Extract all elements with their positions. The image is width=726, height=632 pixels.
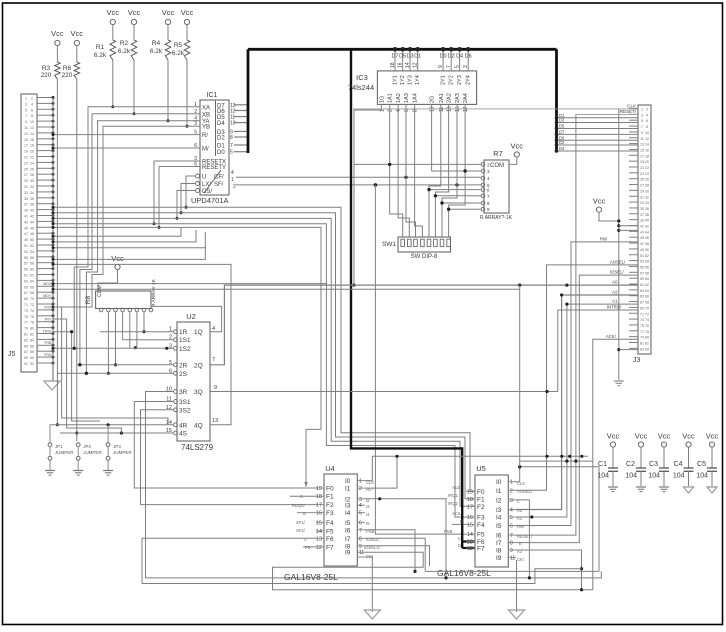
svg-text:82: 82 <box>645 342 649 346</box>
svg-text:11: 11 <box>640 137 644 141</box>
op-amp U1 IC1 body <box>191 92 236 205</box>
svg-text:28: 28 <box>645 184 649 188</box>
svg-text:4: 4 <box>510 508 513 514</box>
PLD U5 GAL16V8-25L <box>437 464 516 578</box>
wire J3 row 264 AOSEL <box>516 260 638 491</box>
svg-text:80: 80 <box>645 336 649 340</box>
svg-text:29: 29 <box>24 179 28 183</box>
svg-text:15: 15 <box>316 520 322 526</box>
svg-text:R5: R5 <box>174 42 183 49</box>
svg-text:90: 90 <box>30 356 34 360</box>
wire U4 I6 <box>365 530 417 573</box>
svg-text:RESET/: RESET/ <box>620 109 637 114</box>
svg-text:Vcc: Vcc <box>635 432 648 441</box>
svg-text:104: 104 <box>696 473 708 480</box>
svg-text:22: 22 <box>30 156 34 160</box>
svg-text:GAL16V8-25L: GAL16V8-25L <box>284 572 338 582</box>
svg-text:81: 81 <box>640 342 644 346</box>
svg-text:JUMPER: JUMPER <box>55 450 74 455</box>
svg-text:39: 39 <box>24 209 28 213</box>
svg-text:86: 86 <box>30 344 34 348</box>
svg-text:16: 16 <box>645 148 649 152</box>
wire J3 row 304 A1 <box>516 299 638 519</box>
svg-text:XB: XB <box>202 112 210 118</box>
capacitor C5 104 <box>696 432 718 494</box>
wire R7 rowE <box>427 188 481 191</box>
resistor R1 6.2k <box>94 40 116 60</box>
svg-text:34: 34 <box>30 191 34 195</box>
svg-text:42: 42 <box>645 225 649 229</box>
svg-text:44: 44 <box>30 220 34 224</box>
wire R8 pin6 <box>136 312 138 348</box>
svg-text:R ARRAY 1K: R ARRAY 1K <box>151 278 157 307</box>
svg-text:15: 15 <box>24 138 28 142</box>
wire bottom B1 <box>425 570 599 572</box>
svg-text:Vcc: Vcc <box>593 197 606 206</box>
svg-text:14: 14 <box>467 532 473 538</box>
svg-text:4: 4 <box>212 326 215 332</box>
svg-text:1: 1 <box>510 480 513 486</box>
wire U5 I8 <box>516 550 583 591</box>
svg-text:1: 1 <box>641 108 643 112</box>
svg-text:D1: D1 <box>217 144 225 150</box>
svg-text:84: 84 <box>30 338 34 342</box>
wire R8 pin4 <box>122 312 124 340</box>
svg-text:TRX: TRX <box>44 306 52 310</box>
svg-text:GAL16V8-25L: GAL16V8-25L <box>437 568 491 578</box>
wire 3R row <box>146 392 602 578</box>
wire collector Hb <box>520 460 593 463</box>
capacitor C3 104 <box>648 432 670 492</box>
svg-text:4Q: 4Q <box>194 422 203 429</box>
wire row 248 <box>52 232 206 249</box>
resistor R5 6.2k <box>172 40 190 60</box>
bus thick left drop <box>247 49 250 153</box>
svg-text:R2: R2 <box>120 40 129 47</box>
resistor R2 6.2k <box>118 40 137 60</box>
resistor R3 220 <box>41 62 61 79</box>
svg-text:73: 73 <box>24 309 28 313</box>
svg-text:18: 18 <box>30 144 34 148</box>
svg-text:6.2k: 6.2k <box>172 50 185 57</box>
svg-text:I6: I6 <box>496 533 502 540</box>
wire 1S1 row <box>123 339 174 341</box>
svg-text:SW1: SW1 <box>382 241 396 248</box>
svg-text:Vcc: Vcc <box>607 432 620 441</box>
svg-text:TRA: TRA <box>44 353 52 357</box>
svg-text:19: 19 <box>24 150 28 154</box>
svg-text:1: 1 <box>25 97 27 101</box>
wire U4 I2 long <box>365 497 448 579</box>
svg-text:41: 41 <box>24 215 28 219</box>
svg-text:7: 7 <box>510 533 513 539</box>
svg-text:JP3: JP3 <box>113 444 121 449</box>
svg-text:6: 6 <box>510 524 513 530</box>
svg-text:12: 12 <box>645 137 649 141</box>
svg-text:IRQ2: IRQ2 <box>448 501 458 506</box>
wire row 283 <box>52 282 327 285</box>
Vcc R2 <box>128 8 141 40</box>
svg-text:8: 8 <box>413 109 419 112</box>
svg-text:69: 69 <box>24 297 28 301</box>
wire bus row1 <box>52 206 476 492</box>
svg-text:3: 3 <box>510 498 513 504</box>
wire RESETY tap <box>158 167 161 229</box>
svg-text:SW DIP-8: SW DIP-8 <box>411 254 438 260</box>
svg-text:17: 17 <box>316 503 322 509</box>
svg-text:1A3: 1A3 <box>404 93 410 103</box>
svg-text:6.2k: 6.2k <box>94 52 107 59</box>
Vcc R4 <box>162 8 175 40</box>
svg-text:D4: D4 <box>456 54 463 60</box>
svg-text:16: 16 <box>467 515 473 521</box>
svg-text:YB: YB <box>202 125 210 131</box>
bus thick mid drop <box>351 49 462 548</box>
svg-text:13: 13 <box>212 418 218 424</box>
ground J3 vcc line <box>614 381 624 386</box>
svg-text:I5: I5 <box>345 520 351 527</box>
wire IC1 LX pin <box>180 184 196 215</box>
wire XB net <box>80 114 192 365</box>
svg-text:30: 30 <box>30 179 34 183</box>
svg-text:51: 51 <box>24 244 28 248</box>
svg-text:66: 66 <box>645 295 649 299</box>
svg-text:A1: A1 <box>517 516 523 521</box>
resistor R4 6.2k <box>150 40 171 60</box>
svg-text:1Y4: 1Y4 <box>415 75 421 85</box>
svg-text:E: E <box>519 541 522 546</box>
svg-text:1: 1 <box>231 177 234 183</box>
svg-text:COM: COM <box>490 163 504 169</box>
wire J3 row 349 <box>619 349 638 351</box>
resistor array R7 <box>480 149 513 221</box>
svg-text:6.2k: 6.2k <box>150 48 163 55</box>
svg-text:29: 29 <box>640 189 644 193</box>
svg-text:68: 68 <box>645 301 649 305</box>
wire row 259 <box>52 248 206 261</box>
svg-text:47: 47 <box>24 232 28 236</box>
svg-text:2Q: 2Q <box>194 362 203 369</box>
svg-text:F1: F1 <box>326 494 334 501</box>
svg-text:6: 6 <box>31 108 33 112</box>
wire row 236 <box>52 228 182 238</box>
capacitor C1 104 <box>597 432 619 492</box>
svg-text:TRB: TRB <box>44 341 52 345</box>
svg-text:1S1: 1S1 <box>179 337 191 344</box>
svg-text:32: 32 <box>645 195 649 199</box>
svg-text:2R: 2R <box>179 362 188 369</box>
svg-text:36: 36 <box>645 207 649 211</box>
svg-text:62: 62 <box>30 274 34 278</box>
svg-text:75: 75 <box>640 324 644 328</box>
svg-text:3R: 3R <box>179 389 188 396</box>
svg-text:I7: I7 <box>345 536 351 543</box>
wire IC1 CS pin <box>176 191 196 220</box>
svg-text:13: 13 <box>24 132 28 136</box>
svg-text:2A1: 2A1 <box>439 93 445 103</box>
svg-text:R6: R6 <box>63 65 72 72</box>
wire R8 pin7 <box>142 312 145 334</box>
svg-text:2Y3: 2Y3 <box>457 75 463 85</box>
svg-text:25: 25 <box>24 167 28 171</box>
svg-text:28: 28 <box>30 173 34 177</box>
svg-text:83: 83 <box>24 338 28 342</box>
svg-text:36: 36 <box>30 197 34 201</box>
svg-text:AOSEL/: AOSEL/ <box>517 489 533 494</box>
wire R7 rowB <box>432 169 481 172</box>
svg-text:70: 70 <box>30 297 34 301</box>
wire 4S row <box>60 431 174 434</box>
svg-text:6: 6 <box>646 119 648 123</box>
svg-text:4S: 4S <box>179 431 188 438</box>
wire IC3 2G <box>431 104 433 171</box>
wire U5 F4 stub <box>452 523 466 525</box>
svg-text:14: 14 <box>316 529 322 535</box>
svg-text:43: 43 <box>24 220 28 224</box>
svg-text:39: 39 <box>640 219 644 223</box>
svg-text:65: 65 <box>24 285 28 289</box>
svg-text:3: 3 <box>641 113 643 117</box>
wire FNB vertical <box>375 185 466 534</box>
svg-text:RESETY: RESETY <box>202 165 226 171</box>
svg-text:35: 35 <box>24 197 28 201</box>
svg-text:57: 57 <box>24 262 28 266</box>
wire bus row5 <box>52 226 322 484</box>
svg-text:M/: M/ <box>202 147 209 153</box>
svg-text:74ls244: 74ls244 <box>348 83 374 92</box>
svg-text:17: 17 <box>24 144 28 148</box>
svg-text:F2: F2 <box>477 504 485 511</box>
wire CF/ to R7 <box>236 176 481 179</box>
svg-text:JP2: JP2 <box>83 444 91 449</box>
svg-text:MDY: MDY <box>43 294 52 298</box>
wire 1S2 row <box>52 347 174 350</box>
svg-text:42: 42 <box>30 215 34 219</box>
switch SW1 SW DIP-8 <box>382 237 451 260</box>
svg-text:5: 5 <box>194 130 197 136</box>
svg-text:3: 3 <box>194 121 197 127</box>
svg-text:12: 12 <box>30 126 34 130</box>
svg-text:8: 8 <box>510 541 513 547</box>
svg-text:12: 12 <box>467 546 473 552</box>
resistor R6 220 <box>62 62 80 79</box>
svg-text:D0: D0 <box>440 54 447 60</box>
svg-text:70: 70 <box>645 306 649 310</box>
svg-text:4: 4 <box>646 113 648 117</box>
svg-text:35: 35 <box>640 207 644 211</box>
svg-text:D2: D2 <box>448 54 455 60</box>
svg-text:31: 31 <box>640 195 644 199</box>
wire J5 ground bus <box>52 98 54 381</box>
svg-text:7: 7 <box>230 143 233 149</box>
svg-text:25: 25 <box>640 178 644 182</box>
svg-text:1A2: 1A2 <box>396 93 402 103</box>
wire U4 F7 row <box>303 546 316 548</box>
svg-text:34: 34 <box>645 201 649 205</box>
svg-text:55: 55 <box>24 256 28 260</box>
svg-text:1A4: 1A4 <box>413 93 419 103</box>
svg-text:64: 64 <box>30 279 34 283</box>
svg-text:9: 9 <box>359 544 362 550</box>
svg-text:2: 2 <box>194 109 197 115</box>
wire feeder2 <box>53 319 121 433</box>
svg-text:SF1/: SF1/ <box>296 520 306 525</box>
svg-text:TRIG: TRIG <box>42 329 51 333</box>
svg-text:F3: F3 <box>477 515 485 522</box>
svg-text:14: 14 <box>30 132 34 136</box>
svg-text:77: 77 <box>640 330 644 334</box>
svg-text:1Y1: 1Y1 <box>393 75 399 85</box>
wire feeder3 <box>53 330 100 421</box>
svg-text:9: 9 <box>510 548 513 554</box>
svg-text:104: 104 <box>625 473 637 480</box>
PLD U4 GAL16V8-25L <box>284 464 365 582</box>
wire U5 vertical I0 link <box>519 285 521 467</box>
svg-text:49: 49 <box>640 248 644 252</box>
svg-text:I6: I6 <box>345 527 351 534</box>
svg-text:SF2/: SF2/ <box>296 528 306 533</box>
svg-text:9: 9 <box>214 385 217 391</box>
svg-text:55: 55 <box>640 265 644 269</box>
svg-text:2A4: 2A4 <box>463 93 469 103</box>
wire R6 down to JP2 <box>75 79 78 441</box>
wire bus row3 <box>52 217 476 506</box>
svg-text:18: 18 <box>316 494 322 500</box>
svg-text:D4: D4 <box>559 146 565 151</box>
svg-text:19: 19 <box>316 486 322 492</box>
svg-text:8: 8 <box>31 114 33 118</box>
svg-text:3: 3 <box>25 102 27 106</box>
svg-text:1Q: 1Q <box>194 329 203 336</box>
svg-text:4: 4 <box>396 109 402 112</box>
svg-text:Vcc: Vcc <box>706 432 719 441</box>
svg-text:52: 52 <box>645 254 649 258</box>
wire RESETY row <box>159 166 192 168</box>
svg-text:C: C <box>458 536 461 541</box>
svg-text:2Y2: 2Y2 <box>449 75 455 85</box>
svg-text:U5: U5 <box>476 464 486 473</box>
wire R1 down <box>111 60 114 108</box>
svg-text:21: 21 <box>640 166 644 170</box>
svg-text:C2: C2 <box>626 461 635 468</box>
svg-text:1R: 1R <box>179 329 188 336</box>
wire U2 4Q out <box>52 263 232 425</box>
svg-text:C4: C4 <box>674 461 683 468</box>
svg-text:38: 38 <box>645 213 649 217</box>
svg-text:IOSEL/: IOSEL/ <box>610 270 624 275</box>
svg-text:2: 2 <box>359 486 362 492</box>
svg-text:D3: D3 <box>559 118 565 123</box>
svg-text:88: 88 <box>30 350 34 354</box>
svg-text:37: 37 <box>24 203 28 207</box>
svg-text:60: 60 <box>645 277 649 281</box>
svg-text:J5: J5 <box>8 351 16 358</box>
svg-text:76: 76 <box>645 324 649 328</box>
svg-text:74: 74 <box>30 309 34 313</box>
svg-text:77: 77 <box>24 321 28 325</box>
svg-text:72: 72 <box>30 303 34 307</box>
svg-text:2G: 2G <box>430 96 436 103</box>
svg-text:78: 78 <box>645 330 649 334</box>
wire R7 rowH <box>447 208 481 211</box>
svg-text:CLK: CLK <box>627 104 636 109</box>
svg-text:46: 46 <box>645 236 649 240</box>
svg-text:D1: D1 <box>414 54 421 60</box>
wire R8 pin5 <box>130 312 137 350</box>
svg-text:D4: D4 <box>217 121 225 127</box>
svg-text:Vcc: Vcc <box>107 8 120 17</box>
U5 net labels <box>444 481 533 562</box>
svg-text:13: 13 <box>640 143 644 147</box>
svg-text:D2: D2 <box>217 136 225 142</box>
svg-text:I1: I1 <box>345 486 351 493</box>
svg-text:51: 51 <box>640 254 644 258</box>
svg-text:31: 31 <box>24 185 28 189</box>
svg-text:20: 20 <box>645 160 649 164</box>
svg-text:32: 32 <box>30 185 34 189</box>
svg-text:79: 79 <box>24 327 28 331</box>
wire U4 I1 up <box>365 455 399 488</box>
capacitor C4 104 <box>673 432 695 494</box>
wire U4 pin11 gnd <box>371 556 373 612</box>
svg-text:I7: I7 <box>496 540 502 547</box>
svg-text:Vcc: Vcc <box>658 432 671 441</box>
svg-text:I8: I8 <box>496 548 502 555</box>
wire CLK row <box>353 104 638 109</box>
svg-text:F2: F2 <box>326 502 334 509</box>
svg-text:5: 5 <box>510 515 513 521</box>
svg-text:B: B <box>303 511 306 516</box>
svg-text:RW: RW <box>600 237 607 242</box>
wire U2 3Q long <box>210 385 558 393</box>
svg-text:67: 67 <box>24 291 28 295</box>
svg-text:Vcc: Vcc <box>111 254 124 263</box>
wire SF/ to R7 <box>236 183 481 187</box>
bus thick horizontal <box>248 48 557 51</box>
svg-text:69: 69 <box>640 306 644 310</box>
svg-text:I2: I2 <box>496 497 502 504</box>
svg-text:40: 40 <box>30 209 34 213</box>
svg-text:53: 53 <box>24 250 28 254</box>
wire U4 I0 up <box>365 455 588 481</box>
svg-text:5: 5 <box>359 511 362 517</box>
svg-text:53: 53 <box>640 260 644 264</box>
wire U2 1Q out <box>151 306 222 331</box>
svg-text:74: 74 <box>645 318 649 322</box>
Vcc R3 <box>51 29 64 62</box>
capacitor C2 104 <box>625 432 647 492</box>
svg-text:AOSEL/: AOSEL/ <box>610 260 626 265</box>
svg-text:11: 11 <box>24 126 28 130</box>
svg-text:75: 75 <box>24 315 28 319</box>
svg-text:33: 33 <box>24 191 28 195</box>
svg-text:CS/: CS/ <box>202 189 212 195</box>
svg-text:1: 1 <box>359 479 362 485</box>
svg-text:C5: C5 <box>697 461 706 468</box>
svg-text:1Y2: 1Y2 <box>400 75 406 85</box>
svg-text:R ARRAY?-1K: R ARRAY?-1K <box>480 215 513 221</box>
svg-text:RDQ0/: RDQ0/ <box>292 503 306 508</box>
svg-text:1S2: 1S2 <box>179 346 191 353</box>
svg-text:23: 23 <box>24 161 28 165</box>
svg-text:R3: R3 <box>42 65 51 72</box>
svg-text:38: 38 <box>30 203 34 207</box>
wire U4 pin11 stub <box>357 556 372 558</box>
svg-text:D5: D5 <box>399 54 406 60</box>
svg-text:13: 13 <box>467 540 473 546</box>
svg-text:6: 6 <box>194 162 197 168</box>
svg-text:2A2: 2A2 <box>447 93 453 103</box>
